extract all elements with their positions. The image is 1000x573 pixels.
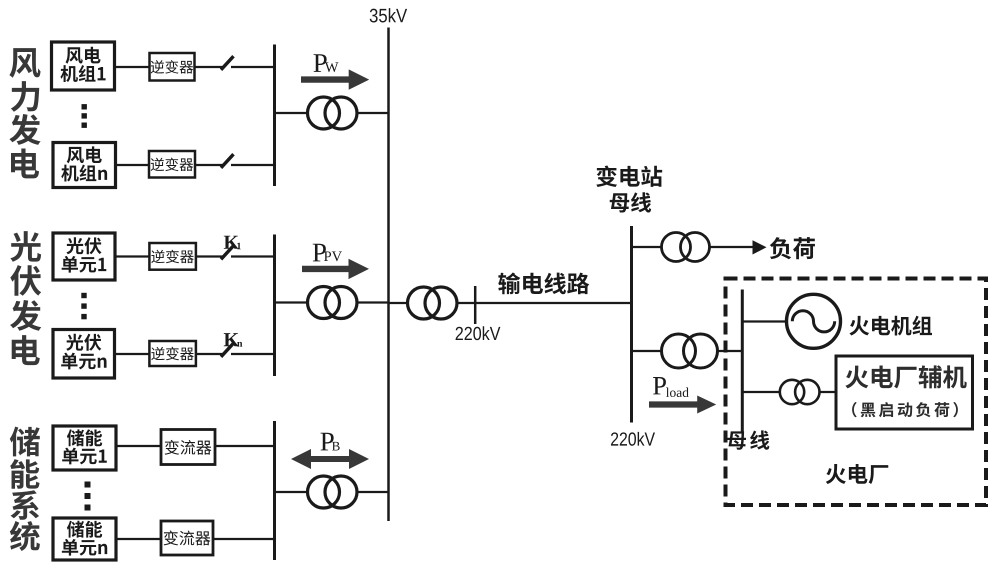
bus wind collector [273, 45, 276, 187]
arrow P_W (power flow) [301, 69, 369, 89]
label 220kV (plant side) [611, 432, 655, 446]
wire T1 to 35kV bus [357, 112, 389, 114]
label 输电线路 (transmission line) [498, 272, 589, 294]
label P_load [653, 377, 689, 397]
bus substation [630, 226, 633, 423]
box 风电机组n (wind unit n) [53, 143, 116, 188]
tick 220kV side marker [474, 286, 477, 324]
label Kn [224, 333, 243, 346]
transformer T3 (storage step-up) [308, 476, 358, 508]
bus storage collector [273, 421, 276, 560]
wire inverter to switch Kn [196, 353, 223, 355]
box 火电厂辅机 (plant auxiliaries) [836, 356, 973, 429]
wire transmission line T4 to substation bus [457, 302, 632, 304]
wire wind bus to transformer T1 [275, 112, 309, 114]
wire K1 to PV bus [231, 255, 274, 257]
wire inverter to switch K1 [196, 255, 223, 257]
box 逆变器 (inverter, PV row n) [149, 341, 196, 366]
label 风力发电 (wind power generation) [9, 48, 40, 178]
arrow P_B (bidirectional power flow) [291, 449, 369, 469]
switch blade (wind row n) [221, 154, 234, 168]
box 变流器 (converter, row n) [161, 521, 213, 555]
dashed box 火电厂 (thermal plant boundary) [726, 279, 987, 506]
wire T3 to 35kV bus [357, 491, 389, 493]
box 逆变器 (inverter, PV row 1) [149, 243, 196, 270]
label 220kV (transmission) [456, 326, 501, 340]
arrow P_load (power flow to plant) [649, 396, 716, 414]
label 35kV [370, 8, 407, 22]
label 负荷 (load) [770, 237, 815, 259]
arrowhead to load [753, 240, 767, 254]
transformer T4 (220kV step-up) [408, 287, 458, 319]
label K1 [224, 236, 241, 250]
label 储能系统 (energy storage system) [10, 427, 40, 551]
box 光伏单元1 (PV unit 1) [53, 233, 115, 280]
wire plant bus to aux transformer T7 [742, 391, 780, 393]
box 风电机组1 (wind unit 1) [52, 42, 115, 90]
box 变流器 (converter, row 1) [161, 430, 215, 465]
wire T2 to 35kV bus [357, 301, 389, 303]
wire Kn to PV bus [231, 353, 274, 355]
wire substation bus to plant transformer T6 [632, 350, 663, 352]
wire PV bus to transformer T2 [275, 301, 309, 303]
switch blade (wind row 1) [221, 56, 234, 70]
transformer T1 (wind step-up) [308, 97, 358, 129]
label 光伏发电 (PV generation) [10, 231, 41, 365]
wire 风电机组1 to inverter [115, 66, 150, 68]
wire storage bus to transformer T3 [275, 491, 309, 493]
wire substation bus to load transformer T5 [632, 246, 663, 248]
switch K1 blade [221, 246, 234, 260]
box 储能单元n (storage unit n) [53, 518, 116, 560]
wire switch to wind bus (row n) [231, 164, 274, 166]
wire 光伏单元n to inverter [115, 353, 150, 355]
label 火电厂 (thermal power plant) [826, 464, 889, 484]
label P_PV [313, 244, 342, 262]
ellipsis dots (wind group) [82, 104, 87, 109]
wire 风电机组n to inverter [116, 164, 150, 166]
wire switch to wind bus [231, 66, 274, 68]
switch Kn blade [221, 343, 234, 357]
wire 储能单元n to converter [116, 538, 161, 540]
box 储能单元1 (storage unit 1) [53, 426, 116, 470]
label 火电机组 (thermal generating unit) [849, 316, 932, 336]
wire T6 to plant bus [717, 350, 742, 352]
generator 火电机组 (AC source symbol) [787, 294, 841, 348]
wire plant bus to generator [742, 320, 787, 322]
label P_W [313, 54, 338, 72]
transformer T7 (auxiliary) [780, 380, 820, 404]
wire T5 to load arrow [710, 246, 754, 248]
wire inverter to switch (wind row n) [195, 164, 223, 166]
box 逆变器 (inverter, wind row n) [149, 151, 195, 178]
label 母线 (plant bus) [727, 430, 769, 449]
arrow P_PV (power flow) [302, 259, 369, 279]
wire 35kV bus to transformer T4 [389, 302, 409, 304]
wire T7 to aux box [819, 391, 836, 393]
wire 储能单元1 to converter [116, 445, 161, 447]
label 变电站母线 (substation bus) [596, 166, 662, 213]
bus PV collector [273, 235, 276, 377]
wire inverter to switch (wind row 1) [195, 66, 223, 68]
bus 35kV [387, 28, 390, 522]
box 光伏单元n (PV unit n) [53, 330, 115, 379]
wire converter to storage bus [215, 445, 274, 447]
box 逆变器 (inverter, wind row 1) [150, 53, 195, 81]
label P_B [320, 433, 339, 451]
bus plant 母线 [741, 290, 744, 432]
transformer T5 (load feeder) [662, 233, 710, 262]
transformer T2 (PV step-up) [308, 287, 358, 319]
wire 光伏单元1 to inverter [115, 255, 149, 257]
wire converter to storage bus (row n) [213, 538, 274, 540]
ellipsis dots (PV group) [81, 293, 86, 298]
ellipsis dots (storage group) [85, 482, 91, 488]
transformer T6 (plant feeder) [662, 334, 718, 368]
